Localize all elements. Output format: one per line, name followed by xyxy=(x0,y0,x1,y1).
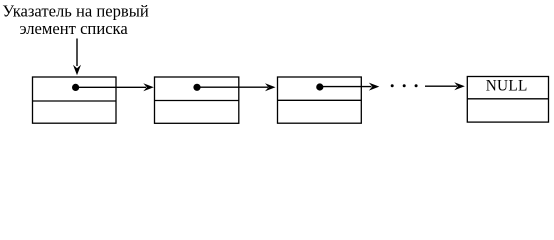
node 1 box xyxy=(33,77,117,123)
svg-text:Указатель на первый: Указатель на первый xyxy=(2,2,148,21)
ellipsis dot 1 xyxy=(391,84,394,87)
node 3 pointer dot xyxy=(316,83,323,90)
wire: arrow ellipsis to NULL node xyxy=(425,82,465,90)
svg-text:NULL: NULL xyxy=(486,78,528,95)
wire: arrow node1 to node2 xyxy=(76,83,154,91)
node 3 box xyxy=(278,77,362,123)
ellipsis dot 2 xyxy=(403,84,406,87)
svg-text:элемент списка: элемент списка xyxy=(19,19,128,38)
node 1 pointer dot xyxy=(72,84,79,91)
wire: head pointer arrow (vertical) xyxy=(73,39,81,76)
ellipsis dot 3 xyxy=(415,84,418,87)
node 2 pointer dot xyxy=(193,84,200,91)
node 2 box xyxy=(155,77,239,123)
wire: arrow node3 to ellipsis xyxy=(320,83,380,91)
wire: arrow node2 to node3 xyxy=(197,83,276,91)
node 4 box (tail) xyxy=(467,77,548,123)
